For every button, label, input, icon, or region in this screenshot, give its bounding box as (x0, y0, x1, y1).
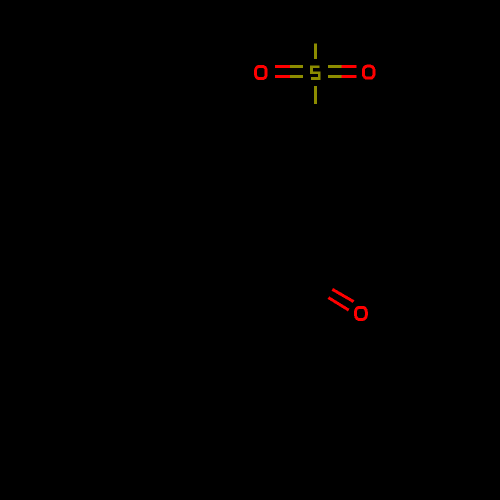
double bond S=O left, lower line, S half (290, 75, 303, 78)
double bond S=O left, upper line, S half (290, 65, 303, 68)
bond S-C(ring) (visible sulfur half) (314, 86, 317, 104)
double bond S=O left, upper line, O half (275, 65, 290, 68)
double bond C=O carbonyl, lower line, O half (328, 298, 348, 311)
double bond S=O left, lower line, O half (275, 75, 290, 78)
atom O (sulfonyl left oxygen) (256, 66, 267, 78)
atom O (carbonyl oxygen) (356, 307, 367, 319)
atom S (sulfonyl sulfur) (311, 67, 319, 79)
double bond S=O right, lower line, S half (328, 75, 342, 78)
double bond S=O right, upper line, S half (328, 65, 342, 68)
double bond S=O right, upper line, O half (341, 65, 356, 68)
bond CH3-S (visible sulfur half) (314, 43, 317, 59)
double bond C=O carbonyl, upper line, O half (332, 289, 353, 301)
double bond S=O right, lower line, O half (341, 75, 356, 78)
atom O (sulfonyl right oxygen) (363, 66, 374, 78)
